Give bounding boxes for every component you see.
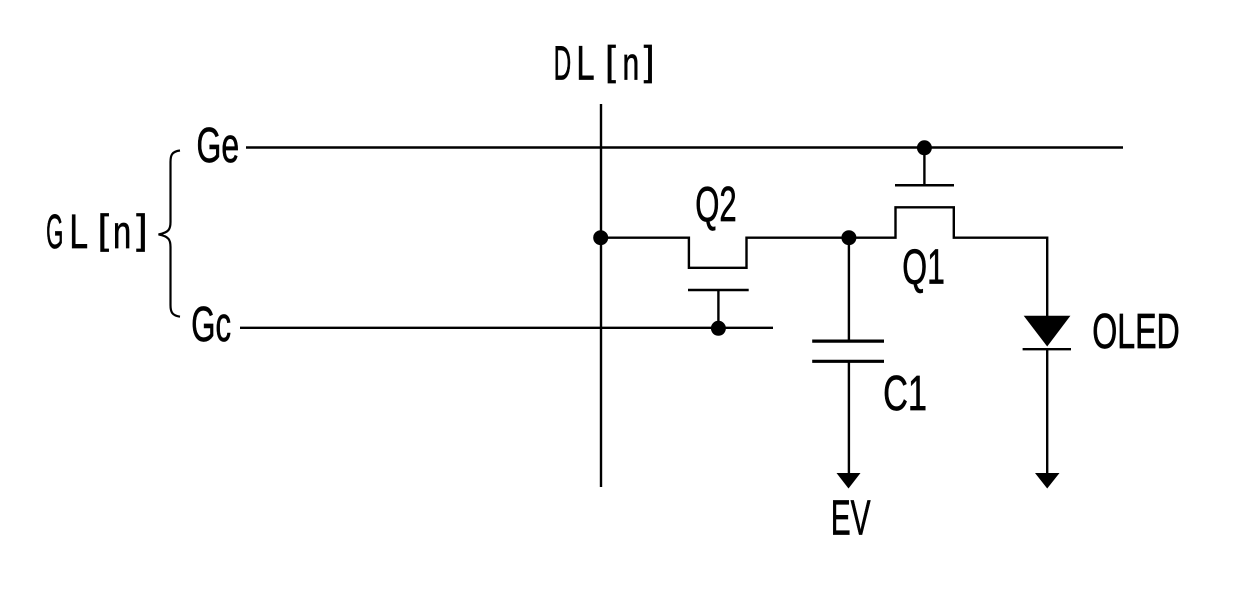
svg-text:OLED: OLED — [1092, 304, 1180, 359]
wire data line DL[n] vertical — [600, 104, 602, 487]
transistor Q2 gate bar — [688, 289, 749, 292]
svg-text:Ge: Ge — [197, 118, 240, 173]
svg-text:C1: C1 — [883, 366, 927, 421]
diode OLED cathode bar — [1023, 348, 1071, 350]
capacitor C1 top plate — [812, 340, 884, 343]
svg-text:]: ] — [644, 37, 655, 83]
transistor Q2 channel — [601, 238, 849, 268]
svg-text:n: n — [113, 206, 131, 258]
svg-text:n: n — [623, 38, 640, 90]
label GL[n] — [46, 206, 147, 259]
svg-text:D: D — [554, 38, 572, 91]
wire Q1 gate stem — [923, 148, 925, 186]
arrowhead OLED — [1035, 473, 1060, 489]
node junction dot Q2 gate on Gc — [711, 321, 726, 336]
node junction dot storage node — [841, 230, 856, 245]
svg-text:Q1: Q1 — [902, 240, 945, 295]
svg-text:L: L — [69, 206, 88, 259]
brace GL[n] — [159, 151, 181, 317]
wire capacitor C1 top stem — [848, 238, 850, 341]
svg-text:EV: EV — [831, 491, 871, 546]
capacitor C1 bottom plate — [812, 360, 884, 363]
arrowhead EV — [837, 473, 861, 489]
transistor Q1 gate bar — [895, 184, 954, 187]
svg-text:]: ] — [136, 206, 147, 252]
svg-text:Q2: Q2 — [695, 177, 736, 232]
label DL[n] — [554, 37, 655, 90]
node junction dot Q1 gate on Ge — [917, 140, 932, 155]
svg-text:G: G — [46, 206, 63, 259]
transistor Q1 channel and wire to OLED — [849, 207, 1047, 316]
svg-text:L: L — [576, 38, 594, 91]
svg-text:[: [ — [98, 206, 110, 252]
svg-text:Gc: Gc — [191, 297, 231, 352]
wire OLED bottom stem — [1046, 349, 1048, 474]
wire Q2 gate stem — [717, 290, 719, 328]
wire Ge horizontal line — [246, 146, 1123, 148]
wire capacitor C1 bottom stem — [848, 361, 850, 474]
svg-text:[: [ — [605, 37, 616, 83]
wire Gc horizontal line — [240, 327, 773, 329]
diode OLED triangle — [1024, 316, 1071, 347]
node junction dot DL — [593, 230, 608, 245]
